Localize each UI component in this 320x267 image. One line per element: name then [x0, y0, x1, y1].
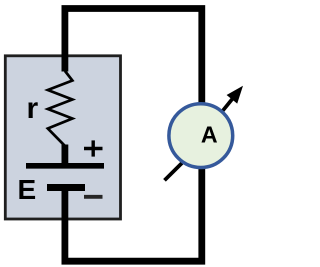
svg-text:r: r: [27, 92, 39, 125]
svg-text:A: A: [201, 122, 218, 148]
svg-text:E: E: [18, 174, 37, 205]
